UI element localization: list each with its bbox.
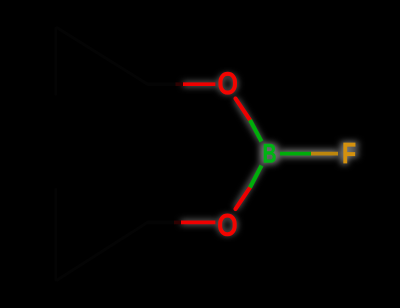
bottom-left diagonal C-C bond (near-black) — [57, 222, 147, 280]
bond O1-B oxygen half (red diagonal) — [236, 99, 251, 121]
atom label O2 (bottom oxygen, red ring) — [220, 216, 235, 235]
wire C6-O2 dark lead-in — [174, 221, 181, 225]
bottom-left vertical C stub (near-black) — [54, 189, 57, 280]
atom label O1 (top oxygen, red ring) — [220, 74, 235, 93]
wire C6-O2 carbon half (near-black) — [148, 221, 182, 225]
wire C4-O1 carbon half (near-black) — [148, 82, 184, 86]
bond B-F fluorine half (gold) — [311, 152, 338, 156]
bond O2-B oxygen half (red diagonal) — [236, 188, 251, 210]
wire C4-O1 oxygen half (red) — [183, 82, 215, 86]
svg-text:F: F — [342, 136, 356, 169]
wire C6-O2 oxygen half (red) — [181, 221, 215, 225]
svg-text:B: B — [263, 138, 277, 168]
bond O1-B boron half (green diagonal) — [250, 120, 262, 142]
wire C4-O1 dark lead-in — [176, 82, 184, 86]
atom label B (boron, green) — [263, 138, 277, 168]
bond O2-B boron half (green diagonal) — [250, 166, 262, 188]
jpeg-artifact halos behind bright strokes — [181, 69, 358, 241]
methyl C stub top-left vertical (near-black) — [54, 28, 57, 94]
atom label F (fluorine, gold) — [342, 136, 356, 169]
methyl C-C bond top-left diagonal (near-black) — [57, 28, 147, 84]
bond B-F boron half (green) — [280, 152, 311, 156]
